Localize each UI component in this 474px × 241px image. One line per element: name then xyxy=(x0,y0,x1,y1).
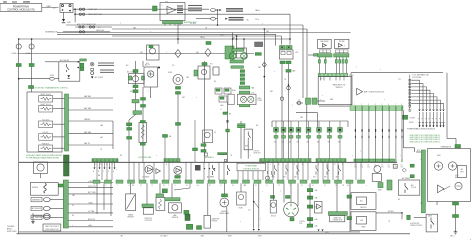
wire right col xyxy=(309,183,311,188)
bottom wire bus xyxy=(19,231,360,233)
wire A/C comp feed rail xyxy=(135,61,137,115)
svg-text:TN: TN xyxy=(244,185,246,187)
wire spark tower 6 xyxy=(411,97,437,109)
dark bar under C181 xyxy=(185,214,190,220)
spark plug 4 xyxy=(429,123,431,126)
wire 4AD TAN xyxy=(69,133,114,135)
pressure switch 1 xyxy=(213,165,216,175)
vehicle speed sensor xyxy=(220,198,229,207)
connector circle x225 xyxy=(224,159,227,162)
wire coil drop x355 xyxy=(354,111,356,160)
wire ign feed down xyxy=(402,111,404,148)
DLC connector bus xyxy=(328,212,347,216)
svg-text:C7: C7 xyxy=(394,165,396,167)
svg-text:4AD TAN: 4AD TAN xyxy=(84,131,92,134)
A/C cycle switch box xyxy=(398,180,420,195)
ground G100 xyxy=(62,19,65,22)
pin labels lower connector row xyxy=(94,184,349,187)
svg-text:GRY/x TN: GRY/x TN xyxy=(88,186,96,188)
wire generator sense xyxy=(63,31,110,33)
ignition bus C100B (bright) xyxy=(350,106,403,111)
svg-text:T: T xyxy=(166,52,167,54)
wire gnd link xyxy=(33,215,44,217)
connector C171 xyxy=(286,61,291,64)
svg-text:SW x: SW x xyxy=(324,176,328,178)
compressor control box A xyxy=(351,193,376,210)
svg-text:COLTW REF: COLTW REF xyxy=(412,77,421,79)
wire to ground xyxy=(63,12,65,19)
svg-text:D: D xyxy=(108,171,109,173)
vertical connector marks xyxy=(240,70,244,73)
connector 8A xyxy=(163,135,168,138)
scattered wire color labels xyxy=(72,20,445,229)
diamond valve x264 xyxy=(262,62,266,67)
svg-text:TN: TN xyxy=(100,149,102,151)
svg-text:TN: TN xyxy=(388,221,390,223)
svg-text:SWITCHES: SWITCHES xyxy=(7,231,17,233)
svg-text:T: T xyxy=(148,91,149,93)
MAP sensor element xyxy=(172,205,178,211)
wire lower feed bus xyxy=(17,53,254,55)
wire BK right xyxy=(376,212,402,214)
connector x206 a xyxy=(201,144,206,147)
pin tick below C100 xyxy=(343,77,345,81)
pin numbers above ignition bus xyxy=(354,104,402,106)
ignition amp box xyxy=(315,202,323,214)
connector bar D xyxy=(239,105,249,107)
generator stator A xyxy=(434,162,442,170)
green module box xyxy=(225,46,234,59)
svg-text:RADIO/AMP 15A: RADIO/AMP 15A xyxy=(88,13,103,16)
bus C100 xyxy=(318,74,348,77)
junction x159 xyxy=(158,67,160,69)
bottom small labels xyxy=(120,235,262,238)
svg-text:VOLT: VOLT xyxy=(455,175,459,177)
PCM connector bus segment 3 xyxy=(260,159,311,162)
svg-text:GY TAN: GY TAN xyxy=(88,210,95,213)
instrument gauge circle A xyxy=(229,53,236,60)
wire injector 2 to PCM xyxy=(283,138,285,159)
gauge dial A xyxy=(240,96,246,102)
fan resistor top connector xyxy=(140,121,145,123)
transmission connector bus C2 vertical xyxy=(65,94,69,151)
svg-text:C: C xyxy=(103,171,104,173)
svg-text:4AB TAN: 4AB TAN xyxy=(84,95,92,98)
wire spark tower 1 xyxy=(411,80,419,109)
wire rail x288 xyxy=(288,61,290,162)
fuel pump xyxy=(173,75,183,85)
svg-text:BK: BK xyxy=(214,81,216,83)
bottom arrows mid xyxy=(317,230,319,232)
O2 sensor element xyxy=(201,69,206,74)
svg-text:x xx: x xx xyxy=(165,1,168,3)
svg-text:x TAN: x TAN xyxy=(88,201,93,204)
wire coil drop x389 xyxy=(388,111,390,160)
inner box A xyxy=(357,197,367,205)
TPS box xyxy=(143,208,153,214)
svg-text:TN x: TN x xyxy=(246,20,249,22)
connector C143 xyxy=(141,105,146,108)
svg-text:CONTROL MODULE (78): CONTROL MODULE (78) xyxy=(7,8,35,11)
sensor symbols small xyxy=(266,171,274,180)
fuel injector 3 xyxy=(289,128,294,139)
connector oval C210 xyxy=(211,9,216,12)
ignition coil shield box xyxy=(30,183,58,196)
arrow right row1 xyxy=(219,9,221,11)
wire x195 xyxy=(194,120,196,148)
svg-text:BK: BK xyxy=(120,155,122,157)
svg-text:CYL: CYL xyxy=(388,167,391,169)
svg-text:RUN: RUN xyxy=(50,75,55,77)
PCM drop wires xyxy=(97,162,361,180)
component x205 above line xyxy=(205,153,208,156)
connector C142 xyxy=(141,98,146,101)
connector left of box B xyxy=(347,217,352,220)
label dashes heated windshield area xyxy=(98,63,114,65)
fuel pump gauge box xyxy=(237,94,256,104)
connector C102 xyxy=(29,64,34,67)
svg-text:1 P: 1 P xyxy=(320,79,322,81)
svg-text:C2: C2 xyxy=(298,100,300,102)
wire reg link xyxy=(443,186,450,190)
amp diode xyxy=(317,204,322,209)
spark plug 2 xyxy=(422,123,424,126)
PCM title box xyxy=(0,4,42,12)
comp conn right xyxy=(142,76,145,80)
wire 4AB TAN xyxy=(69,97,114,99)
wire injector 8 to PCM xyxy=(339,138,341,159)
svg-text:B: B xyxy=(98,171,99,173)
connector LT GRN xyxy=(403,115,408,119)
svg-text:LT GRN: LT GRN xyxy=(409,118,416,120)
ignition module box top xyxy=(351,72,443,74)
connector x206 b xyxy=(201,150,206,153)
svg-text:6: 6 xyxy=(388,104,389,106)
connector C172 xyxy=(286,70,291,73)
bus stub left xyxy=(314,54,318,57)
spark plug 5 xyxy=(432,123,434,126)
fan resistor zigzag xyxy=(141,125,144,139)
svg-text:T: T xyxy=(292,105,293,107)
A/C clutch coil xyxy=(91,72,94,75)
connector right col y205 xyxy=(307,205,313,208)
small box x254 xyxy=(255,42,263,47)
wire gen out xyxy=(436,201,438,205)
wire fused B+ RADIO xyxy=(75,13,290,15)
svg-text:SHIFT SOL B: SHIFT SOL B xyxy=(40,104,51,106)
small box left of gauges xyxy=(228,94,234,104)
label strip row1 xyxy=(226,9,243,11)
spark plug 8 xyxy=(442,123,444,126)
connector on x129 c xyxy=(127,137,132,140)
connector C190 xyxy=(407,215,410,219)
svg-text:E: E xyxy=(113,171,114,173)
wire coil drop x368 xyxy=(368,111,370,160)
svg-text:T: T xyxy=(308,155,309,157)
small comp right of relay xyxy=(91,68,94,70)
wire C211 left xyxy=(196,18,211,20)
connector right col y196 xyxy=(307,196,313,199)
wire IGN feed xyxy=(75,26,112,28)
svg-text:THROTTLE: THROTTLE xyxy=(144,218,152,220)
svg-text:FIT THE MANUAL TRANS WIRES SHO: FIT THE MANUAL TRANS WIRES SHOWN xyxy=(26,157,60,160)
fan resistor bottom connector xyxy=(140,143,145,145)
small box right of module xyxy=(237,48,247,58)
wire drop 104 xyxy=(103,183,105,210)
labels under arrows xyxy=(93,170,114,173)
fuse HEAD 15A xyxy=(79,8,84,10)
svg-text:4: 4 xyxy=(375,104,376,106)
relay connector pair upper xyxy=(280,46,286,50)
svg-text:TN: TN xyxy=(205,28,207,30)
connector above knock xyxy=(271,196,275,199)
canister purge relay box xyxy=(204,215,210,228)
pin tick below C100 xyxy=(329,77,331,81)
wire EGR to PCM xyxy=(227,102,229,162)
fuel injector 1 xyxy=(274,128,279,139)
svg-text:R x: R x xyxy=(98,27,101,29)
wire x AB xyxy=(68,226,113,228)
svg-text:B: B xyxy=(267,185,268,187)
connector on x178 xyxy=(176,123,181,126)
wire to EGR sensor xyxy=(240,183,242,192)
svg-text:CYL: CYL xyxy=(398,79,401,81)
wire jog xyxy=(129,114,136,120)
wire to sensor ground xyxy=(32,213,34,219)
wire arrow drop 2 xyxy=(258,183,260,228)
svg-text:BK: BK xyxy=(398,199,400,201)
connector bar A xyxy=(230,60,244,63)
label strip row2 xyxy=(229,18,244,20)
PCM lower connector row xyxy=(93,180,365,183)
wire IAC to PCM xyxy=(240,128,242,159)
cylinder bus xyxy=(354,159,395,162)
PCM main horizontal wire xyxy=(19,161,397,163)
connector above diamond 2 xyxy=(206,42,211,45)
O2 sensor lower cluster xyxy=(203,130,213,143)
connector right col y188.5 xyxy=(307,189,313,192)
fan triangle 2 xyxy=(156,169,161,174)
svg-text:GRD x: GRD x xyxy=(258,236,262,238)
wire to MAP xyxy=(171,183,173,197)
ground A/C clutch xyxy=(91,76,94,78)
svg-text:FUEL INJECTOR: FUEL INJECTOR xyxy=(45,229,59,231)
heater blower box xyxy=(144,67,158,87)
svg-text:P: P xyxy=(429,119,430,121)
svg-text:POWERTRAIN: POWERTRAIN xyxy=(245,164,257,167)
wire 4AE TN xyxy=(69,144,114,146)
svg-text:T: T xyxy=(356,67,357,69)
wire spark tower 8 xyxy=(411,103,443,109)
svg-text:CONTROL MODULE: CONTROL MODULE xyxy=(243,169,260,171)
relay switch symbol xyxy=(67,64,70,72)
connector C2 pair B xyxy=(312,98,317,104)
wire spark tower 3 xyxy=(411,87,426,109)
transmission box xyxy=(27,92,62,152)
svg-text:CYCLE: CYCLE xyxy=(411,187,416,189)
svg-text:IN1: IN1 xyxy=(274,142,276,144)
fusible link F2 xyxy=(29,44,34,49)
svg-text:GRY: GRY xyxy=(182,97,185,99)
terminal O2 xyxy=(69,5,71,7)
svg-text:C: C xyxy=(172,164,173,166)
wire coil drop x395 xyxy=(395,111,397,160)
connector C2 pair A xyxy=(306,98,311,104)
wire GY TAN xyxy=(68,212,113,214)
svg-text:WHOL/DD: WHOL/DD xyxy=(360,207,367,209)
svg-text:T: T xyxy=(120,23,121,25)
spark plug 3 xyxy=(425,123,427,126)
EGR position sensor xyxy=(237,192,247,205)
wire spark tower 7 xyxy=(411,100,440,109)
connector bar B xyxy=(231,66,244,69)
wire BK/T TAN xyxy=(68,193,113,195)
generator stator B xyxy=(448,162,456,170)
svg-text:C3: C3 xyxy=(367,165,369,167)
svg-text:AMP / IGNITION MODULE: AMP / IGNITION MODULE xyxy=(364,90,385,93)
svg-text:IN2: IN2 xyxy=(282,142,284,144)
connector pump 2 xyxy=(176,92,181,95)
wire feed 25 xyxy=(66,24,303,26)
fuse F282 xyxy=(280,97,284,101)
svg-text:IDLE: IDLE xyxy=(245,146,248,148)
wire to distributor 3 xyxy=(297,183,299,206)
svg-text:T: T xyxy=(280,191,281,193)
svg-text:BK/W: BK/W xyxy=(220,35,224,37)
ESC switch symbol xyxy=(431,218,434,229)
wire to purge relay xyxy=(207,183,209,215)
tick xyxy=(164,24,166,26)
fuse HEAD RUN xyxy=(89,26,94,28)
solenoid SHIFT SOL A xyxy=(39,96,53,103)
controller module box U2 xyxy=(160,3,185,21)
wire fuse riser xyxy=(74,9,76,22)
pin tick below C100 xyxy=(335,77,337,81)
svg-text:A/C RELAY: A/C RELAY xyxy=(60,59,70,62)
connector above relay xyxy=(80,59,87,61)
op-amp U2 triangle xyxy=(167,7,176,14)
connector C2 lower bus xyxy=(63,180,68,228)
wire right ground rail xyxy=(455,202,457,230)
diode D1 xyxy=(90,62,94,66)
svg-text:BK: BK xyxy=(306,227,308,229)
connector CA xyxy=(410,164,414,167)
pin tick below C100 xyxy=(339,77,341,81)
connector under comp 1 xyxy=(133,85,138,88)
distributor xyxy=(284,202,299,217)
wire to distributor xyxy=(283,183,285,202)
svg-text:THROTTLE BODY: THROTTLE BODY xyxy=(45,226,60,228)
wire injector 4 to PCM xyxy=(298,138,300,159)
svg-text:GRY: GRY xyxy=(140,52,143,54)
svg-text:D: D xyxy=(175,185,176,187)
low speed fan motor xyxy=(145,166,153,174)
gauge dark component xyxy=(195,165,201,171)
svg-text:IN5: IN5 xyxy=(307,142,309,144)
wire rail x282 xyxy=(281,61,283,162)
connector above distributor xyxy=(286,196,291,199)
svg-text:IN7: IN7 xyxy=(328,142,330,144)
svg-text:FUEL: FUEL xyxy=(258,98,262,100)
wire MAF drop x336.3 xyxy=(335,57,337,74)
fuse F299 xyxy=(297,101,301,105)
svg-text:3-2 SOL: 3-2 SOL xyxy=(42,132,48,134)
idle air control box xyxy=(244,129,252,150)
svg-text:LEVEL SW: LEVEL SW xyxy=(254,153,262,155)
PCM connector bus segment 1 xyxy=(92,159,118,162)
svg-text:SHIELD: SHIELD xyxy=(32,187,39,189)
svg-text:B: B xyxy=(166,164,167,166)
wire left rail / PCM frame left xyxy=(18,39,20,234)
wire MAF drop x325.3 xyxy=(324,57,326,74)
sensor ECT SENSOR xyxy=(43,215,50,219)
connector C170 xyxy=(280,61,285,64)
wire 4AC TAN xyxy=(69,109,114,111)
EGR conn 1 xyxy=(216,89,220,91)
connector left of box A xyxy=(347,195,352,198)
A/C relay K1 xyxy=(59,62,80,81)
wire injector 3 to PCM xyxy=(290,138,292,159)
svg-text:SW x: SW x xyxy=(313,176,317,178)
wire coil drop x402 xyxy=(401,111,403,160)
svg-text:SENSOR: SENSOR xyxy=(127,217,134,219)
wire injector 6 to PCM xyxy=(318,138,320,159)
wire feed 34.4 xyxy=(57,33,276,35)
svg-text:C1: C1 xyxy=(354,165,356,167)
connector bar C155 xyxy=(163,21,183,24)
wire IDLE box to PCM xyxy=(247,141,249,159)
connector right col y224 xyxy=(307,224,313,227)
wire to knock sensor xyxy=(272,183,274,200)
connector right col y217.5 xyxy=(307,218,313,221)
wire C2 out xyxy=(317,100,325,102)
fuel injector 2 xyxy=(281,128,286,139)
IAT connector bus 2 xyxy=(334,54,349,57)
wire MAF drop x346.4 xyxy=(345,57,347,74)
wire spark tower 4 xyxy=(411,90,430,109)
wire coil drop x382 xyxy=(381,111,383,160)
connector generator xyxy=(455,145,461,148)
svg-text:HEAD 10A: HEAD 10A xyxy=(88,8,97,11)
wire injector 1 to PCM xyxy=(275,138,277,159)
wire GRY/x TN xyxy=(68,187,113,189)
fuel injector 5 xyxy=(306,128,311,139)
svg-text:x: x xyxy=(162,5,163,7)
svg-text:x T: x T xyxy=(220,109,222,111)
wire rail x264 xyxy=(263,29,265,162)
svg-text:CYL: CYL xyxy=(401,167,404,169)
wire to sensor2 xyxy=(159,183,161,194)
svg-text:SENSOR: SENSOR xyxy=(336,87,344,89)
VSS connector xyxy=(222,194,228,197)
svg-text:SW x: SW x xyxy=(336,176,340,178)
svg-text:A/C COMP: A/C COMP xyxy=(127,71,136,74)
wire fuse link xyxy=(296,102,303,104)
wire heater to PCM xyxy=(142,87,144,162)
connector grn O2 xyxy=(194,70,198,76)
small box A xyxy=(393,164,397,168)
MAF connector bus 1 xyxy=(318,54,332,57)
svg-text:SPEED SENS: SPEED SENS xyxy=(220,213,230,215)
svg-text:TAN x: TAN x xyxy=(200,36,205,39)
temp sensor box xyxy=(372,173,381,181)
svg-text:T: T xyxy=(260,219,261,221)
terminal O1 xyxy=(61,5,63,7)
connector GRD B xyxy=(453,215,459,218)
connector C2 lower dark xyxy=(64,155,70,176)
connector under fan xyxy=(175,176,181,179)
wire fuel pump to PCM xyxy=(177,94,179,162)
